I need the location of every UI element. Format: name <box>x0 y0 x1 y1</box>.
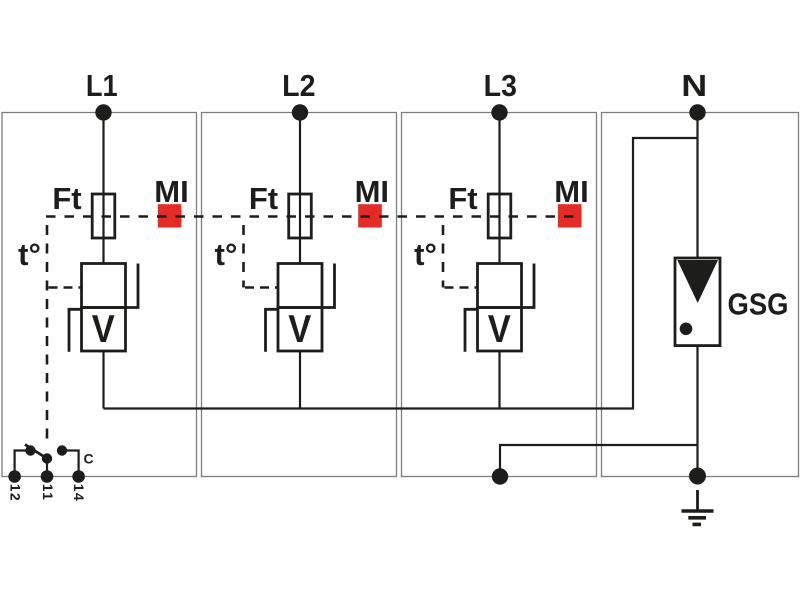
disconnector upper box L3 <box>478 264 522 308</box>
svg-text:V: V <box>92 308 115 351</box>
enclosure box L3 <box>402 113 597 477</box>
enclosure box N <box>602 113 799 477</box>
svg-text:MI: MI <box>554 174 588 209</box>
contact dot 12 <box>25 445 35 455</box>
junction ground <box>689 468 706 485</box>
GSG triangle electrode <box>677 260 718 303</box>
indicator MI L3 <box>558 204 582 227</box>
fuse Ft L3 <box>488 194 511 238</box>
svg-text:L3: L3 <box>484 69 517 103</box>
terminal 12 <box>8 470 21 483</box>
svg-text:12: 12 <box>8 484 24 502</box>
svg-text:MI: MI <box>154 174 188 209</box>
junction terminal PE (box L3) <box>492 468 508 484</box>
bus varistors to N <box>104 138 698 409</box>
wire L1 down to varistor <box>102 113 104 264</box>
svg-text:V: V <box>288 308 311 351</box>
terminal N <box>689 104 705 120</box>
varistor left bracket L2 <box>266 309 279 352</box>
wire N-PE link <box>500 445 698 477</box>
varistor box L1 <box>82 308 126 352</box>
ground symbol bar 2 <box>688 516 706 520</box>
terminal L1 <box>95 104 111 120</box>
wire varistor L2 to bus <box>299 351 301 409</box>
disconnector right bracket L2 <box>322 264 335 308</box>
svg-text:N: N <box>681 69 707 103</box>
wire varistor L3 to bus <box>498 351 500 409</box>
wire N down to GSG <box>696 113 698 259</box>
terminal 11 <box>41 470 54 483</box>
dashed thermal branch L3 <box>445 286 478 289</box>
svg-text:t°: t° <box>18 237 41 272</box>
svg-text:V: V <box>488 308 511 351</box>
wire GSG to ground <box>696 346 698 476</box>
svg-text:Ft: Ft <box>448 181 477 216</box>
gas discharge tube GSG body <box>675 258 720 346</box>
fuse Ft L1 <box>92 194 115 238</box>
svg-text:t°: t° <box>414 237 437 272</box>
svg-text:C: C <box>84 451 94 467</box>
dashed thermal branch L1 <box>49 286 82 289</box>
svg-text:Ft: Ft <box>249 181 278 216</box>
indicator MI L1 <box>158 204 182 227</box>
svg-text:t°: t° <box>215 237 238 272</box>
terminal 14 <box>72 470 85 483</box>
svg-text:MI: MI <box>355 174 389 209</box>
ground symbol bar 3 <box>693 523 702 527</box>
pivot dot 11 <box>42 453 52 463</box>
svg-text:14: 14 <box>71 484 87 502</box>
dashed thermal branch L2 <box>245 286 278 289</box>
dashed thermal vertical L3 <box>442 217 445 288</box>
svg-text:L2: L2 <box>282 69 315 103</box>
terminal L2 <box>292 104 308 120</box>
GSG dot electrode <box>680 323 693 336</box>
indicator MI L2 <box>358 204 382 227</box>
dashed thermal vertical L1 <box>46 217 49 444</box>
dashed MI signal line <box>46 215 582 218</box>
svg-text:L1: L1 <box>86 69 118 103</box>
ground symbol stem <box>696 490 699 511</box>
wire terminal 11 <box>46 459 48 477</box>
dashed thermal vertical L2 <box>242 217 245 288</box>
wire L2 down to varistor <box>299 113 301 264</box>
contact dot 14 <box>57 445 67 455</box>
wire terminal 12 <box>15 451 28 477</box>
disconnector right bracket L3 <box>522 264 535 308</box>
varistor box L2 <box>278 308 322 352</box>
wire L3 down to varistor <box>498 113 500 264</box>
disconnector upper box L1 <box>82 264 126 308</box>
enclosure box L2 <box>202 113 397 477</box>
varistor left bracket L1 <box>69 309 82 352</box>
fuse Ft L2 <box>289 194 312 238</box>
svg-text:11: 11 <box>40 484 56 501</box>
enclosure box L1 <box>2 113 197 477</box>
svg-text:GSG: GSG <box>728 287 789 322</box>
wire terminal 14 <box>64 451 79 477</box>
switch arm C <box>25 445 47 459</box>
disconnector right bracket L1 <box>126 264 139 308</box>
wire varistor L1 to bus <box>102 351 104 409</box>
varistor box L3 <box>478 308 522 352</box>
disconnector upper box L2 <box>278 264 322 308</box>
terminal L3 <box>491 104 507 120</box>
ground symbol bar 1 <box>682 509 714 513</box>
varistor left bracket L3 <box>465 309 478 352</box>
svg-text:Ft: Ft <box>52 181 81 216</box>
